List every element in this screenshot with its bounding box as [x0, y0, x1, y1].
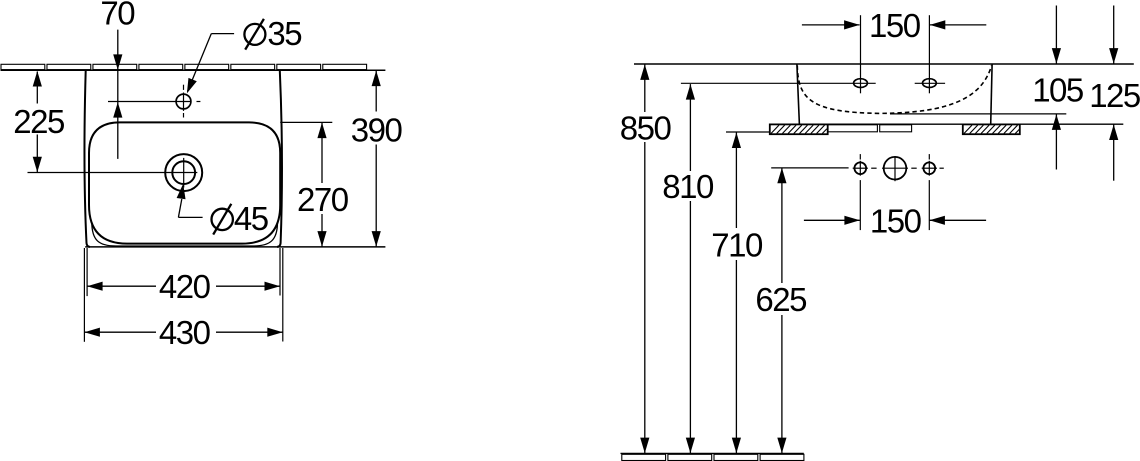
svg-text:810: 810 — [662, 168, 714, 205]
svg-text:150: 150 — [870, 202, 922, 239]
svg-text:35: 35 — [267, 15, 301, 52]
dimension 850 arrowheads — [640, 64, 649, 453]
dimension 710 arrowheads — [732, 133, 741, 454]
dimension 225 line — [36, 72, 38, 173]
svg-text:150: 150 — [869, 7, 921, 44]
basin outer outline right edge — [277, 71, 282, 247]
drain centerline vertical — [183, 158, 185, 188]
dimension 390 line — [375, 71, 377, 247]
extension lines 430 — [84, 248, 282, 342]
shelf line B (125 ref) — [770, 123, 1124, 125]
dimension 430 line — [84, 331, 282, 333]
bowl inner bottom contour — [92, 222, 278, 246]
shelf left stub line (710 ref) — [726, 131, 770, 133]
left mounting hatch block — [770, 124, 828, 134]
dimension 270 line — [321, 123, 323, 247]
svg-text:710: 710 — [711, 227, 763, 264]
leader line Ø35 — [188, 34, 235, 92]
hidden bowl dashed curve — [797, 66, 991, 114]
dimension 430 arrowheads — [84, 328, 282, 337]
basin body right edge — [991, 65, 992, 125]
rawl plug hole right circle — [923, 162, 935, 174]
svg-text:420: 420 — [159, 268, 211, 305]
basin body left edge — [797, 65, 800, 125]
dimension 420 arrowheads — [87, 282, 280, 291]
siphon cover rectangle 1 — [828, 125, 878, 132]
dimension 150 bottom arrowheads — [844, 216, 945, 225]
leader line Ø45 — [178, 199, 202, 217]
svg-text:105: 105 — [1032, 71, 1083, 108]
dimension 70 line — [117, 30, 119, 159]
dimension 710 line — [735, 133, 737, 454]
svg-text:125: 125 — [1089, 77, 1140, 114]
faucet holes centerline (810 ref) — [681, 82, 945, 84]
faucet hole circle — [176, 94, 191, 109]
siphon cover rectangle 2 — [880, 125, 912, 132]
dimension 150 top extension lines — [861, 15, 930, 93]
wall line (top view) — [1, 69, 386, 71]
faucet hole centerline vertical — [183, 85, 185, 118]
dimension 625 line — [781, 168, 783, 453]
drain inner circle — [172, 161, 195, 184]
faucet hole ellipse left (front view) — [854, 79, 868, 88]
rawl plug line solid (625 ref) — [771, 167, 848, 169]
dimension 70 arrowheads — [113, 54, 122, 117]
svg-text:430: 430 — [159, 314, 211, 351]
faucet hole centerline horizontal — [108, 101, 200, 103]
svg-text:390: 390 — [351, 111, 403, 148]
wall hatch band (top view) — [1, 64, 367, 69]
svg-text:270: 270 — [297, 181, 349, 218]
dimension 810 arrowheads — [686, 84, 695, 453]
svg-text:625: 625 — [755, 281, 806, 318]
right mounting hatch block — [963, 124, 1020, 134]
leader arrowhead Ø45 — [177, 184, 186, 199]
rawl plug hole left circle — [854, 162, 866, 174]
faucet hole ellipse right (front view) — [923, 79, 937, 88]
dimension 150 top arrowheads — [844, 20, 945, 29]
leader arrowhead Ø35 — [187, 78, 197, 94]
dimension 390 arrowheads — [372, 71, 381, 247]
dimension 850 line — [644, 64, 646, 453]
dimension 270 arrowheads — [317, 123, 326, 247]
label Ø45 symbol — [212, 204, 233, 235]
rim line — [634, 63, 1134, 65]
floor hatch band — [622, 454, 804, 460]
plug holes centerlines vertical — [860, 154, 929, 230]
dimension 225 arrowheads — [33, 71, 42, 172]
deck underside line A (105 ref) — [890, 113, 1066, 115]
dimension 625 arrowheads — [777, 168, 786, 453]
dimension 420 line — [87, 285, 280, 287]
plug holes centerline dash-dot horizontal — [853, 167, 944, 169]
drain hole circle (front view) — [884, 157, 907, 180]
bowl rounded-rectangle outline — [89, 122, 280, 243]
basin front edge line — [85, 246, 385, 248]
label Ø35 symbol — [244, 19, 265, 50]
floor line — [621, 452, 804, 454]
drain centerline horizontal — [28, 172, 198, 174]
svg-text:45: 45 — [234, 200, 268, 237]
drain outer circle — [165, 154, 202, 191]
dimension 125 arrows — [1113, 6, 1115, 181]
bowl top edge extension line (for 270) — [280, 121, 332, 123]
basin outer outline left edge — [84, 71, 90, 247]
dimension 150 bottom arrow lines — [804, 219, 986, 221]
extension lines 420 — [87, 248, 280, 296]
dimension 810 line — [689, 84, 691, 453]
svg-text:70: 70 — [100, 0, 135, 31]
dimension 105 arrows — [1055, 6, 1057, 170]
svg-text:225: 225 — [13, 103, 64, 140]
dimension 150 top arrow lines — [802, 24, 986, 26]
svg-text:850: 850 — [620, 109, 672, 146]
